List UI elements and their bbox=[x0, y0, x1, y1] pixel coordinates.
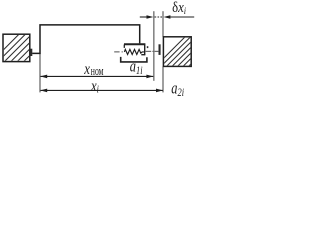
compensator bracket top bar bbox=[124, 43, 145, 45]
svg-text:ном: ном bbox=[91, 65, 104, 78]
svg-text:xi: xi bbox=[90, 78, 99, 96]
svg-text:x: x bbox=[83, 61, 90, 79]
tab on left part bbox=[30, 49, 33, 56]
end cap plate bbox=[159, 44, 161, 55]
bracket right foot bbox=[141, 54, 145, 56]
bracket left leg bbox=[123, 45, 125, 48]
svg-text:δxi: δxi bbox=[172, 0, 186, 16]
delta-x dimension right leader with arrow bbox=[164, 15, 171, 19]
left part block (hatched) bbox=[0, 32, 54, 62]
x-nom left arrow bbox=[40, 75, 47, 79]
label a-2i bbox=[171, 80, 184, 99]
axis dash-dot line right of spring bbox=[146, 50, 152, 52]
extension line at x=153.85 (nominal face) bbox=[153, 11, 155, 81]
label delta-x-i bbox=[172, 0, 186, 16]
svg-text:a1i: a1i bbox=[130, 58, 143, 77]
axis dash-dot line left of spring bbox=[114, 51, 119, 53]
bracket right leg bbox=[144, 45, 146, 56]
extension line at x=40 (left, for xnom and xi) bbox=[39, 53, 41, 92]
small stud right of bracket bbox=[147, 46, 149, 48]
wire from tab up and across to compensator bbox=[32, 25, 140, 54]
spring a1i bbox=[124, 49, 144, 54]
svg-text:a2i: a2i bbox=[171, 80, 184, 99]
delta-x dimension connector between lines bbox=[155, 16, 163, 18]
x-i dimension line bbox=[41, 89, 163, 91]
x-nom dimension line bbox=[41, 75, 154, 77]
label x-i bbox=[90, 78, 99, 96]
delta-x dimension left leader with arrow bbox=[140, 16, 148, 18]
extension line at x=163 below right block bbox=[162, 67, 164, 93]
label a-1i bbox=[130, 58, 143, 77]
x-nom right arrow bbox=[146, 75, 153, 79]
under-bracket (cradle) below spring bbox=[121, 57, 147, 62]
x-i left arrow bbox=[40, 89, 47, 93]
label x-nom bbox=[83, 61, 103, 79]
right part block (hatched) bbox=[156, 36, 219, 66]
x-i right arrow bbox=[156, 89, 163, 93]
extension line at x=163 above right block bbox=[162, 11, 164, 36]
